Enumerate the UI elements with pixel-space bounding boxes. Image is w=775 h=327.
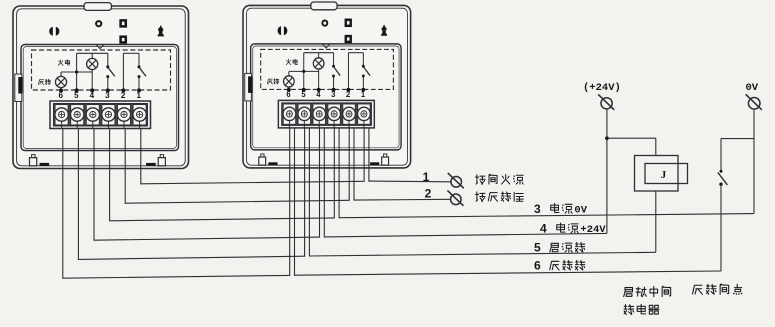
svg-text:4: 4 <box>316 90 321 99</box>
svg-text:1: 1 <box>136 91 141 100</box>
svg-text:5: 5 <box>301 90 306 99</box>
svg-text:6: 6 <box>534 259 541 273</box>
svg-text:6: 6 <box>286 90 291 99</box>
svg-text:2: 2 <box>121 91 126 100</box>
svg-text:1: 1 <box>361 90 366 99</box>
svg-text:5: 5 <box>74 91 79 100</box>
svg-text:(+24V): (+24V) <box>583 82 621 94</box>
svg-text:+24V: +24V <box>580 224 606 236</box>
svg-text:3: 3 <box>331 90 336 99</box>
svg-text:1: 1 <box>423 170 430 184</box>
svg-text:6: 6 <box>58 91 63 100</box>
svg-text:3: 3 <box>105 91 110 100</box>
svg-text:5: 5 <box>534 241 541 255</box>
svg-text:0V: 0V <box>746 82 759 94</box>
svg-text:4: 4 <box>540 221 547 235</box>
svg-text:4: 4 <box>90 91 95 100</box>
svg-text:3: 3 <box>534 202 541 216</box>
svg-text:2: 2 <box>346 90 351 99</box>
svg-text:2: 2 <box>425 187 432 201</box>
svg-text:0V: 0V <box>574 204 587 216</box>
svg-text:J: J <box>661 169 667 181</box>
